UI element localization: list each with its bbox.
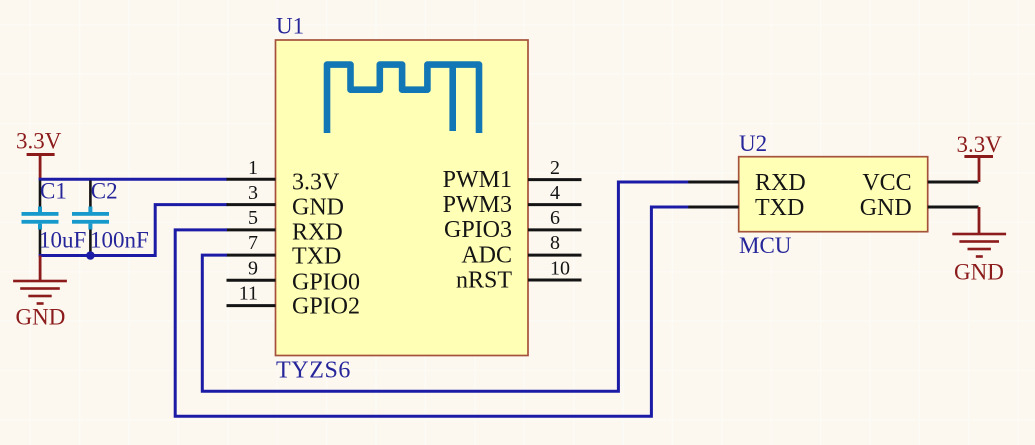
svg-text:11: 11 — [239, 283, 258, 305]
svg-text:3.3V: 3.3V — [16, 129, 62, 154]
power flag 3.3V (right) — [957, 132, 1003, 182]
pin 3 (GND) — [227, 182, 345, 221]
wire: U1 RXD to U2 TXD — [175, 207, 689, 416]
svg-text:PWM1: PWM1 — [443, 167, 512, 193]
ground GND (right) — [952, 207, 1006, 285]
svg-text:2: 2 — [550, 157, 560, 179]
svg-text:GND: GND — [292, 195, 344, 221]
U2 pin RXD — [688, 170, 805, 196]
svg-text:3.3V: 3.3V — [957, 132, 1003, 157]
svg-text:GPIO3: GPIO3 — [444, 217, 512, 243]
svg-text:TXD: TXD — [755, 195, 804, 221]
svg-text:5: 5 — [248, 207, 258, 229]
capacitor C2 — [72, 179, 149, 256]
wire: ground rail from C1/C2 up to U1 pin 3 (GND) — [39, 205, 228, 256]
IC U2 (MCU) body — [739, 157, 928, 232]
pin 4 (PWM3) — [443, 182, 582, 218]
wire: 3.3V rail to U1 pin 1 — [39, 178, 227, 181]
pin 5 (RXD) — [227, 207, 343, 246]
pin 9 (GPIO0) — [227, 258, 361, 296]
svg-text:10uF: 10uF — [39, 228, 86, 253]
svg-text:GND: GND — [860, 195, 912, 221]
svg-text:C2: C2 — [91, 179, 118, 204]
svg-text:nRST: nRST — [456, 268, 512, 294]
svg-text:RXD: RXD — [755, 170, 806, 196]
pin 8 (ADC) — [461, 232, 581, 269]
svg-text:6: 6 — [550, 207, 560, 229]
svg-text:RXD: RXD — [292, 220, 343, 246]
svg-text:U1: U1 — [276, 14, 304, 39]
svg-text:8: 8 — [550, 232, 560, 254]
pin 6 (GPIO3) — [444, 207, 582, 243]
pin 11 (GPIO2) — [227, 283, 361, 320]
pin 2 (PWM1) — [443, 157, 582, 193]
svg-text:3.3V: 3.3V — [292, 170, 340, 196]
wire: U1 TXD to U2 RXD — [202, 182, 689, 391]
pin 1 (3.3V) — [227, 157, 341, 196]
svg-text:VCC: VCC — [862, 170, 911, 196]
svg-text:3: 3 — [248, 182, 258, 204]
power flag 3.3V (left) — [16, 129, 62, 180]
svg-text:1: 1 — [248, 157, 258, 179]
capacitor C1 — [22, 179, 87, 256]
junction: C2 to ground rail — [86, 251, 95, 260]
svg-text:GND: GND — [954, 260, 1004, 285]
svg-text:C1: C1 — [40, 179, 67, 204]
svg-text:MCU: MCU — [739, 233, 792, 258]
U2 pin VCC — [862, 170, 978, 196]
svg-text:TXD: TXD — [292, 244, 341, 270]
pin 10 (nRST) — [456, 258, 582, 294]
svg-text:4: 4 — [550, 182, 560, 204]
svg-text:U2: U2 — [739, 131, 767, 156]
IC U1 (TYZS6 module) body — [276, 40, 529, 356]
svg-text:100nF: 100nF — [90, 228, 149, 253]
svg-text:GPIO0: GPIO0 — [292, 270, 360, 296]
U2 pin GND — [860, 195, 979, 221]
svg-text:PWM3: PWM3 — [443, 192, 512, 218]
pin 7 (TXD) — [227, 232, 342, 270]
U2 pin TXD — [688, 195, 804, 221]
svg-text:GND: GND — [16, 305, 66, 330]
svg-text:9: 9 — [248, 258, 258, 280]
svg-text:GPIO2: GPIO2 — [292, 294, 360, 320]
svg-text:7: 7 — [248, 232, 258, 254]
ground GND (left) — [13, 256, 67, 330]
svg-text:ADC: ADC — [461, 243, 512, 269]
svg-text:10: 10 — [550, 258, 570, 280]
svg-text:TYZS6: TYZS6 — [276, 358, 351, 384]
antenna icon inside U1 — [327, 65, 479, 133]
